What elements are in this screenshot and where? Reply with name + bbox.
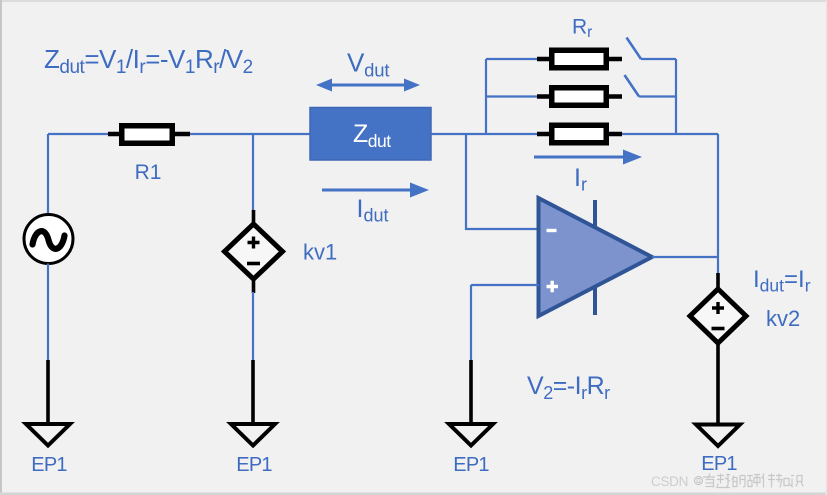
ground EP1 (op-amp): lead and triangle: [449, 360, 493, 446]
label Idut: [357, 195, 389, 226]
svg-text:kv1: kv1: [303, 240, 337, 265]
svg-text:V2=-IrRr: V2=-IrRr: [527, 372, 610, 403]
wire: kv1 to ground lead: [252, 292, 254, 361]
label R1: [135, 161, 162, 184]
wire: left vertical from top corner to source: [47, 134, 49, 214]
svg-text:EP1: EP1: [701, 453, 737, 475]
wire: row1 left stub: [486, 58, 537, 60]
resistor R1: [108, 126, 190, 144]
wire: resistor bank left bus: [485, 59, 487, 134]
wire: op-amp plus input from ground branch: [471, 284, 539, 286]
wire: Zdut box to resistor bank row3: [431, 133, 537, 135]
Ir arrow: [534, 150, 642, 165]
svg-text:kv2: kv2: [766, 306, 800, 331]
label Vdut: [347, 48, 389, 81]
svg-text:EP1: EP1: [453, 454, 489, 476]
Idut arrow: [322, 183, 429, 198]
ground EP1 (kv2): triangle: [696, 425, 740, 447]
resistor Rr row3: [537, 125, 622, 143]
Vdut double arrow: [316, 79, 420, 92]
wire: R1 to Zdut box: [190, 133, 310, 135]
DUT block Zdut: [310, 108, 431, 161]
svg-text:R1: R1: [135, 161, 162, 184]
switch S2 (row2): [625, 75, 677, 97]
label Ir: [574, 164, 587, 195]
op-amp U1: [539, 198, 653, 316]
ground EP1 left: lead and triangle: [26, 360, 70, 446]
wire: plus branch down to ground: [470, 285, 472, 361]
watermark CSDN @有趣的硬件知识: [651, 474, 803, 490]
label EP1 (kv1): [236, 454, 272, 476]
controlled source kv1: [225, 210, 283, 293]
resistor Rr row2: [537, 88, 622, 106]
wire: top corner to R1 left lead: [48, 133, 108, 135]
resistor Rr row1: [537, 50, 622, 68]
label Idut=Ir: [753, 266, 811, 296]
label Rr: [572, 16, 592, 42]
label kv2: [766, 306, 800, 331]
label EP1 (kv2): [701, 453, 737, 475]
label EP1 (left): [31, 454, 67, 476]
wire: junction down to kv1: [252, 134, 254, 211]
wire: right bus from top wire down to kv2: [717, 134, 719, 274]
wire: op-amp output: [652, 256, 718, 258]
svg-text:EP1: EP1: [31, 454, 67, 476]
wire: branch down to op-amp minus input: [466, 134, 539, 229]
svg-text:CSDN: CSDN: [651, 474, 688, 489]
wire: row2 left stub: [486, 95, 537, 97]
label EP1 (op-amp): [453, 454, 489, 476]
wire: source bottom to ground lead: [47, 264, 49, 362]
svg-text:EP1: EP1: [236, 454, 272, 476]
label kv1: [303, 240, 337, 265]
formula Zdut=V1/Ir=-V1Rr/V2: [44, 44, 253, 78]
switch S1 (row1): [627, 38, 677, 60]
AC source V1: [24, 215, 73, 264]
label V2=-IrRr: [527, 372, 610, 403]
ground EP1 (kv1): lead and triangle: [231, 360, 275, 446]
controlled source kv2: [690, 273, 746, 424]
wire: resistor bank right bus: [675, 59, 677, 134]
wire: row3 to right corner: [622, 133, 718, 135]
